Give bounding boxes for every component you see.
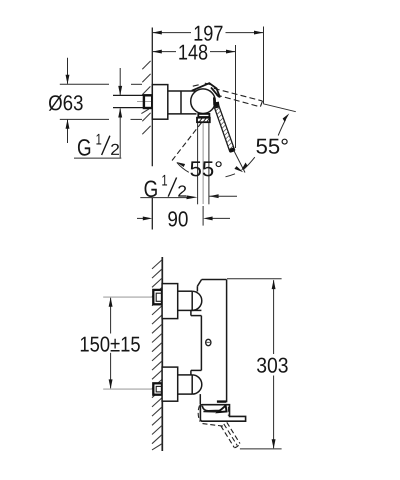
escutcheon bottom (side view) (162, 367, 178, 401)
outlet extension lines (198, 123, 209, 205)
angle leader (swung lever) (263, 104, 296, 112)
dimension Ø63 text (49, 95, 62, 111)
lever hub (top view) (213, 102, 219, 109)
G1/2 outlet arrows (187, 195, 198, 199)
dashed swung lever (lower, top view) (172, 123, 202, 161)
arc 55 right (244, 120, 286, 170)
dimension 148 line (152, 51, 235, 53)
dimension Ø63 arrows (66, 75, 70, 85)
extension line for 148 (lever tip) (235, 45, 237, 148)
dimension 303 (273, 280, 275, 448)
centerline top union (103, 296, 153, 298)
ball (top view) (191, 89, 216, 114)
GROHE logo mark (206, 339, 211, 345)
extension line for 197 (swung lever tip) (263, 27, 265, 104)
lever plate (top view) (192, 83, 220, 105)
wall hatch (side view) (152, 260, 162, 450)
dimension 150±15 (110, 298, 112, 389)
dimension Ø63 lines (60, 58, 142, 143)
label G1/2 (outlet) (140, 175, 188, 198)
body (top view) (168, 91, 197, 114)
inlet pipe stub (top view) (113, 95, 152, 107)
inlet centerline (top view) (137, 101, 152, 103)
hex nut bottom (side view) (153, 383, 162, 394)
escutcheon top (side view) (162, 284, 178, 319)
dimension 148 text (179, 45, 187, 60)
outlet centerline (202, 123, 204, 204)
dimension 90 text (168, 211, 177, 226)
lever shaft (top view) (206, 93, 242, 164)
G1/2 leader (inlet) (119, 68, 121, 158)
thick mark above handle (body bottom edge) (217, 400, 226, 402)
handle wedge fold (218, 406, 227, 413)
wall line (side view) (161, 257, 163, 451)
hex nut (top view) (144, 95, 152, 108)
dimension 197 text (195, 26, 203, 41)
wall line (top view) (151, 28, 153, 230)
wall hatch (top view) (141, 61, 150, 134)
label G1/2 (inlet) (74, 134, 121, 158)
text 55 right (256, 139, 267, 154)
dimension 148 arrows (152, 50, 162, 54)
dashed swung handle (side view) (198, 405, 240, 447)
hex nut top (side view) (153, 290, 162, 304)
extension line bottom (303) (240, 448, 282, 450)
lever tip extension line (234, 151, 245, 173)
dashed swung lever (upper, top view) (193, 83, 263, 107)
dimension 197 line (152, 32, 263, 34)
bottom union stub and cap (178, 375, 202, 394)
top union stub and cap (178, 291, 202, 310)
dimension 197 arrows (152, 31, 162, 35)
text 55 lower (190, 161, 201, 176)
body (side view) (191, 280, 227, 405)
dimension 90 (137, 217, 230, 219)
extension line top (303) (227, 278, 282, 280)
escutcheon (top view) (152, 85, 168, 120)
arc 55 lower (177, 163, 235, 177)
outlet collar (top view) (198, 114, 209, 117)
centerline bottom union (103, 388, 153, 390)
handle grip (side view) (200, 405, 245, 422)
outlet thread (top view) (197, 118, 210, 123)
